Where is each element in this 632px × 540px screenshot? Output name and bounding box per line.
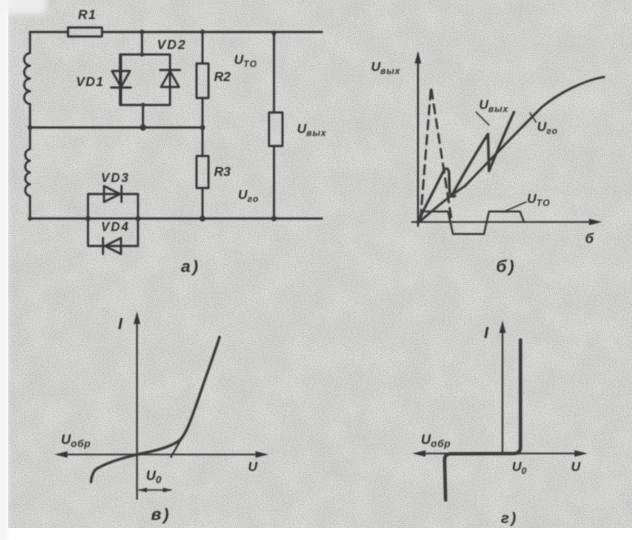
- svg-text:VD2: VD2: [157, 37, 187, 52]
- curve U_go ramp: [418, 77, 604, 223]
- axis Y graph v: [136, 315, 138, 499]
- wire left vertical: [29, 32, 31, 219]
- svg-text:б: б: [585, 230, 594, 246]
- pointer U_TO label: [503, 202, 526, 212]
- svg-text:I: I: [118, 316, 123, 333]
- axis X graph v: [58, 454, 265, 456]
- wire VD1-VD2 branch drop: [142, 32, 143, 128]
- wire R2 vertical: [201, 32, 203, 156]
- diode VD1: [111, 55, 131, 106]
- node top VD branch: [140, 30, 145, 35]
- node bottom load: [271, 216, 277, 222]
- resistor R3: [197, 156, 209, 188]
- resistor R1: [68, 28, 102, 37]
- axis Y graph b: [417, 54, 419, 226]
- wire top rail: [30, 31, 322, 33]
- axis X graph g: [416, 453, 584, 455]
- wire VD3-VD4 box: [88, 194, 138, 246]
- axis X graph b: [412, 221, 598, 223]
- wire R3 to bottom rail: [201, 188, 203, 219]
- svg-text:R3: R3: [214, 164, 231, 179]
- resistor R2: [197, 64, 209, 99]
- diode VD4: [103, 238, 121, 254]
- svg-text:R2: R2: [214, 69, 231, 84]
- curve diode real: [91, 337, 220, 482]
- wire VD1-VD2 box: [120, 55, 170, 106]
- diode VD2: [160, 70, 180, 87]
- node VD box bottom: [141, 103, 145, 107]
- node middle VD branch: [140, 124, 146, 130]
- inductor L1: [24, 53, 30, 104]
- curve U_vyh sawtooth: [418, 112, 514, 221]
- svg-text:а): а): [181, 257, 200, 276]
- svg-text:VD4: VD4: [101, 220, 130, 234]
- svg-text:VD3: VD3: [101, 171, 130, 185]
- wire bottom rail: [30, 217, 322, 219]
- node middle R2: [200, 125, 205, 130]
- diode VD3: [104, 186, 122, 202]
- arrow U0 span: [139, 489, 171, 491]
- pointer U_vyh label: [476, 112, 489, 125]
- curve U_TO trace: [419, 212, 524, 235]
- svg-text:г): г): [501, 510, 518, 527]
- node VD box top: [140, 52, 144, 56]
- curve dashed input spike: [421, 87, 452, 221]
- curve diode ideal: [445, 340, 521, 500]
- svg-text:VD1: VD1: [76, 74, 104, 89]
- node bottom left: [28, 216, 32, 220]
- node top R2: [200, 30, 205, 35]
- svg-text:б): б): [496, 257, 516, 276]
- svg-text:U: U: [571, 459, 581, 474]
- inductor L2: [25, 149, 30, 196]
- axis Y graph g: [502, 324, 504, 454]
- node bottom VD3 right: [135, 216, 140, 221]
- svg-text:в): в): [151, 505, 171, 524]
- resistor load Rload: [269, 113, 283, 147]
- tangent line knee: [171, 427, 188, 457]
- node bottom R3: [200, 216, 206, 222]
- wire load vertical: [273, 32, 275, 219]
- svg-text:R1: R1: [78, 7, 97, 22]
- node top load: [272, 31, 277, 36]
- node middle left: [28, 125, 33, 130]
- pointer U_go label: [530, 113, 536, 122]
- svg-text:I: I: [484, 325, 489, 342]
- svg-text:U: U: [248, 459, 258, 474]
- node bottom VD3 left: [85, 216, 90, 221]
- wire middle rail: [30, 126, 202, 128]
